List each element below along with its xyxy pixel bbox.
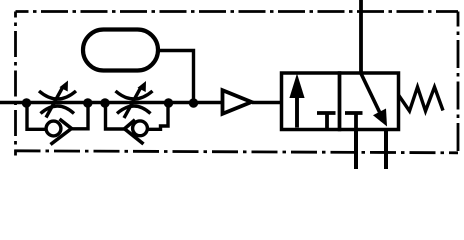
amplifier triangle <box>223 90 252 114</box>
flow control valve 1 upper arc <box>39 91 76 99</box>
flow control valve 2 lower arc <box>117 106 151 114</box>
flow control valve 1 lower arc <box>41 106 75 114</box>
wire bypass loop 2 right rise <box>147 103 168 130</box>
node E junction dot <box>189 98 198 107</box>
wire bottom port 2 <box>384 130 388 170</box>
flow control valve 2 adjustment arrow shaft <box>124 88 141 118</box>
wire bypass loop 1 right rise <box>70 103 88 129</box>
flow control valve 2 upper arc <box>116 91 153 99</box>
enclosure dash-dot frame right <box>457 12 460 153</box>
valve right box diagonal flow arrow head <box>373 109 387 127</box>
wire triangle to valve <box>252 101 282 104</box>
enclosure dash-dot frame left <box>14 12 17 156</box>
valve right box diagonal flow arrow shaft <box>361 74 380 113</box>
valve right box blocked port T stem joins port 1 <box>354 113 358 129</box>
return spring <box>399 87 444 111</box>
node B junction dot <box>83 98 92 107</box>
wire main supply line <box>0 101 221 104</box>
wire bypass loop 1 left drop <box>27 103 47 130</box>
node A junction dot <box>22 98 31 107</box>
check valve 1 seat <box>51 119 72 145</box>
valve left box blocked port T bar <box>317 111 336 115</box>
node D junction dot <box>164 98 173 107</box>
valve body left box <box>282 73 340 130</box>
valve right box blocked port T bar <box>345 111 363 115</box>
flow control valve 1 adjustment arrow head <box>60 81 69 92</box>
check valve 1 ball <box>46 121 61 136</box>
valve left box blocked port T stem <box>325 113 329 130</box>
wire bypass loop 2 left drop <box>106 103 125 130</box>
wire reservoir to node E <box>157 51 194 103</box>
air reservoir <box>83 30 158 71</box>
enclosure dash-dot frame top <box>16 10 459 13</box>
wire bottom port 1 <box>354 129 358 169</box>
node C junction dot <box>100 98 109 107</box>
valve left box flow arrow head <box>289 74 304 99</box>
wire pilot top port <box>359 0 363 73</box>
flow control valve 1 adjustment arrow shaft <box>46 88 63 118</box>
flow control valve 2 adjustment arrow head <box>138 81 147 92</box>
valve left box flow arrow shaft <box>295 95 299 128</box>
valve body right box <box>340 73 399 130</box>
enclosure dash-dot frame bottom <box>15 151 459 153</box>
check valve 2 ball <box>133 121 148 136</box>
check valve 2 seat <box>125 120 144 144</box>
